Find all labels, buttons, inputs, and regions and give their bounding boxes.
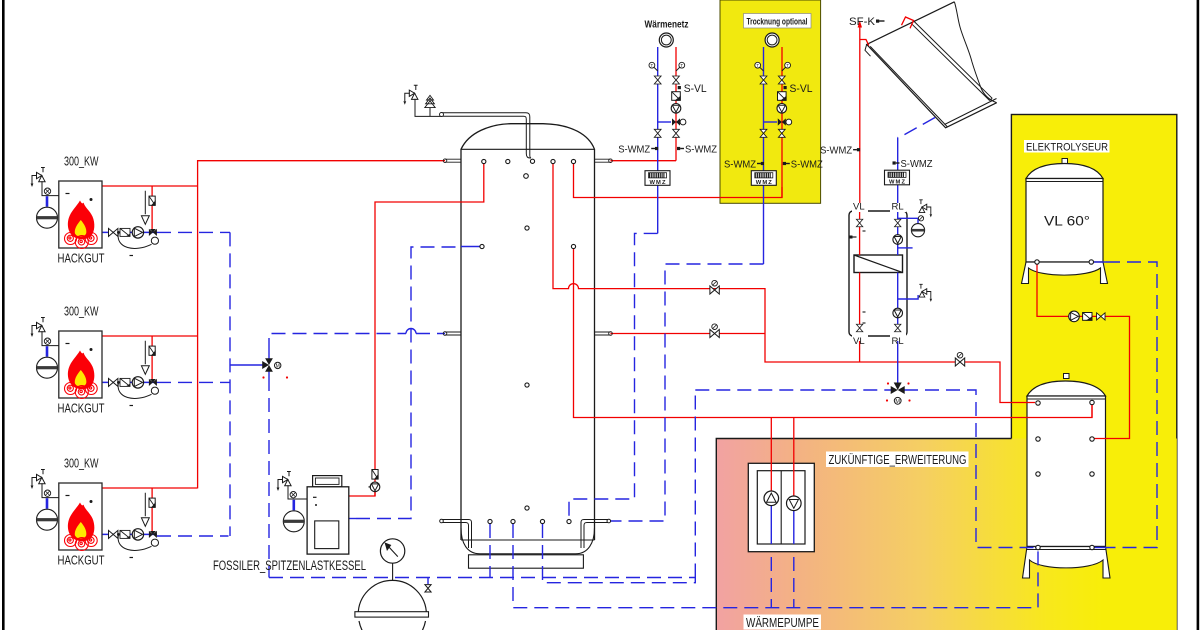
svg-text:M: M <box>276 364 280 370</box>
svg-text:ELEKTROLYSEUR: ELEKTROLYSEUR <box>1026 141 1108 153</box>
svg-text:RL: RL <box>892 202 904 213</box>
svg-text:VL: VL <box>853 202 865 213</box>
svg-text:RL: RL <box>892 336 904 347</box>
svg-text:M: M <box>895 399 900 405</box>
svg-text:Trocknung optional: Trocknung optional <box>747 16 808 27</box>
svg-text:ZUKÜNFTIGE_ERWEITERUNG: ZUKÜNFTIGE_ERWEITERUNG <box>829 452 967 467</box>
svg-text:WÄRMEPUMPE: WÄRMEPUMPE <box>746 615 819 630</box>
svg-text:FOSSILER_SPITZENLASTKESSEL: FOSSILER_SPITZENLASTKESSEL <box>213 558 366 573</box>
svg-text:Wärmenetz: Wärmenetz <box>645 19 689 31</box>
svg-text:SF-K: SF-K <box>849 16 876 28</box>
svg-text:VL 60°: VL 60° <box>1044 214 1090 229</box>
svg-text:VL: VL <box>853 336 865 347</box>
